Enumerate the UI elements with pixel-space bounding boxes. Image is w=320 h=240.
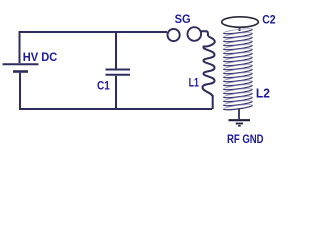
wire L1 bottom lead <box>212 95 214 109</box>
wire L2 to ground stub <box>238 109 240 119</box>
ground RF GND bar 3 <box>238 125 241 127</box>
ground RF GND bar 1 <box>229 119 251 121</box>
wire battery top lead <box>19 31 21 63</box>
svg-text:SG: SG <box>175 12 191 26</box>
capacitor C1 top plate <box>106 69 131 71</box>
spark gap SG right electrode <box>188 27 202 41</box>
wire bottom rail <box>19 108 212 110</box>
inductor L2 secondary coil <box>223 28 252 111</box>
svg-text:C1: C1 <box>97 78 110 92</box>
svg-text:L1: L1 <box>189 75 199 89</box>
wire from SG to L1 <box>201 31 208 36</box>
svg-text:C2: C2 <box>262 12 275 26</box>
wire C1 bottom lead <box>115 76 117 109</box>
ground RF GND bar 2 <box>236 123 243 125</box>
battery HV DC short plate <box>13 70 28 73</box>
wire C1 top lead <box>115 31 117 69</box>
battery HV DC long plate <box>3 63 39 65</box>
inductor L1 <box>202 36 214 97</box>
capacitor C2 toroid topload <box>222 17 259 27</box>
capacitor C1 bottom plate <box>106 74 131 76</box>
spark gap SG left electrode <box>168 29 180 41</box>
svg-text:RF GND: RF GND <box>227 132 264 146</box>
wire C2 to L2 stub <box>239 27 241 32</box>
wire battery bottom lead <box>19 73 21 109</box>
wire top rail <box>20 31 168 33</box>
svg-text:HV DC: HV DC <box>23 50 58 64</box>
svg-text:L2: L2 <box>256 85 270 100</box>
